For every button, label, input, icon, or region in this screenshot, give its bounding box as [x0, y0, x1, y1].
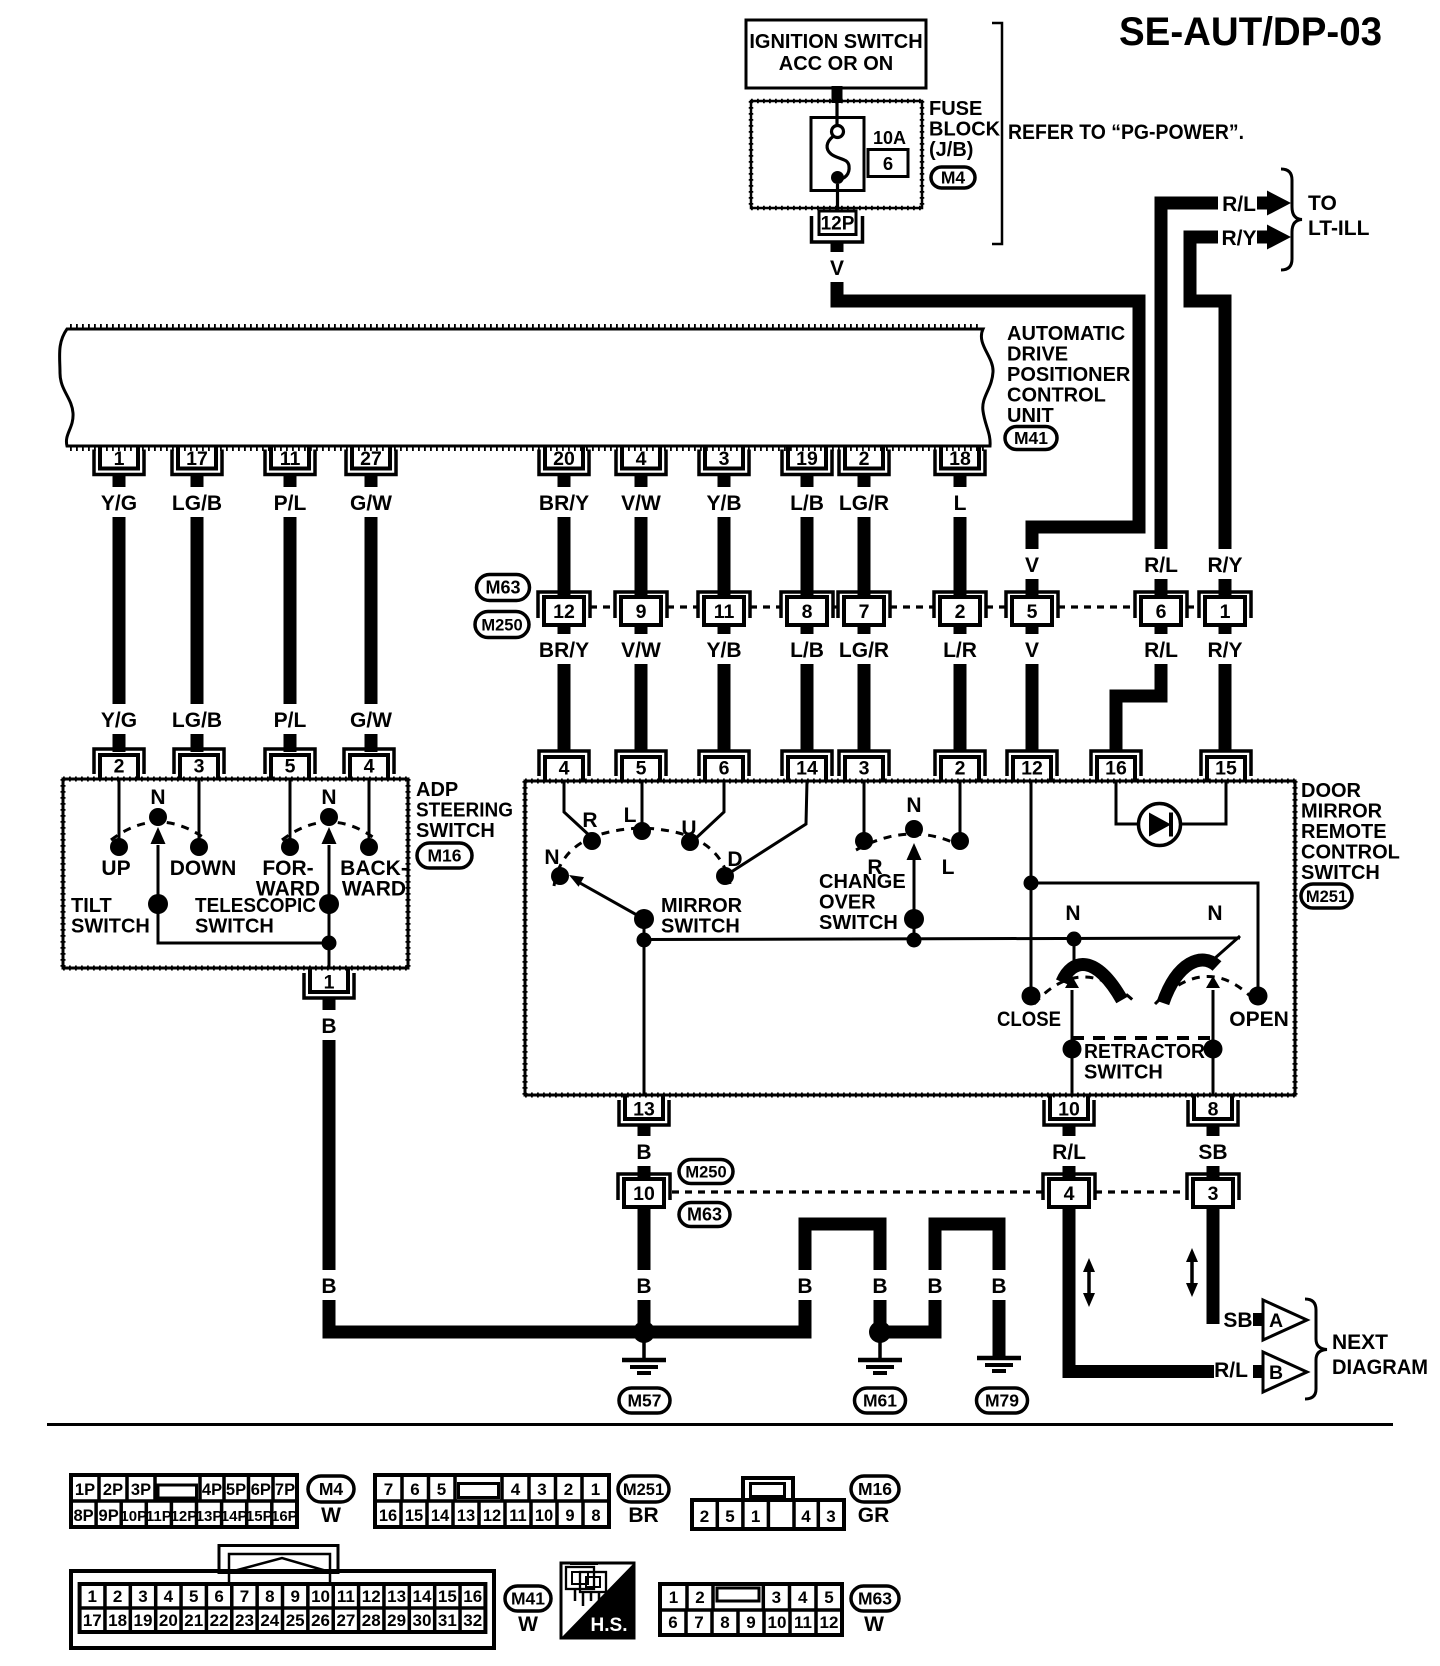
control unit pin 3 [699, 450, 749, 475]
door mirror switch pin 3 [839, 751, 889, 776]
wire label G/W lower [350, 704, 393, 734]
svg-text:REFER TO “PG-POWER”.: REFER TO “PG-POWER”. [1008, 121, 1244, 144]
svg-text:L: L [954, 492, 967, 515]
wire pin 5 to L contact [641, 781, 644, 830]
wire label B left [319, 1270, 339, 1300]
svg-text:LG/R: LG/R [839, 492, 889, 515]
wire label V [1022, 549, 1042, 579]
arrow R/L to LT-ILL [1257, 197, 1267, 210]
svg-text:6: 6 [668, 1613, 677, 1632]
mirror contact R [583, 832, 601, 850]
svg-text:7: 7 [240, 1587, 249, 1606]
svg-text:10A: 10A [873, 128, 906, 148]
connector ref M251 face [618, 1476, 669, 1502]
svg-text:ADP: ADP [416, 779, 458, 801]
svg-text:30: 30 [413, 1611, 432, 1630]
svg-text:4: 4 [798, 1588, 808, 1607]
retractor right arrow to pin 8 [1206, 976, 1220, 988]
wire Y/B to door mirror switch [718, 622, 731, 752]
svg-text:3: 3 [719, 448, 730, 470]
svg-text:12P: 12P [171, 1508, 198, 1525]
svg-text:15P: 15P [246, 1508, 273, 1525]
wire label LG/B lower [170, 704, 224, 734]
svg-text:N: N [321, 786, 336, 809]
svg-text:18: 18 [949, 448, 971, 470]
svg-text:DOWN: DOWN [170, 857, 237, 880]
svg-text:21: 21 [184, 1611, 203, 1630]
door mirror switch pin 15 [1201, 751, 1251, 776]
automatic drive positioner control unit box M41 [60, 329, 993, 446]
wire label B g2 [870, 1270, 890, 1300]
svg-text:(J/B): (J/B) [929, 139, 973, 161]
wire R/L from LT-ILL to connector 6 [1161, 203, 1218, 597]
wire label V/W [620, 634, 663, 664]
svg-text:3: 3 [826, 1507, 835, 1526]
control unit pin 20 [539, 450, 589, 475]
junction telescopic common [322, 936, 337, 951]
svg-text:V: V [830, 257, 844, 280]
svg-text:V/W: V/W [621, 639, 661, 662]
svg-text:16: 16 [1105, 758, 1127, 780]
svg-text:12: 12 [483, 1507, 501, 1525]
svg-text:R/Y: R/Y [1207, 554, 1242, 577]
tilt switch DOWN contact wire [198, 779, 201, 840]
wire SB connector 3 to next diagram A [1207, 1207, 1220, 1324]
svg-text:2: 2 [955, 601, 966, 623]
svg-text:3: 3 [772, 1588, 781, 1607]
svg-text:SWITCH: SWITCH [819, 912, 898, 934]
wire B from ADP pin 1 to ground junction [329, 997, 644, 1332]
wire label R/L pin10 [1048, 1136, 1091, 1166]
brace TO LT-ILL [1281, 169, 1302, 270]
svg-text:15: 15 [405, 1507, 423, 1525]
wire L from pin 18 [954, 473, 967, 597]
connector M63/M250 pin 7 [838, 592, 890, 618]
svg-text:DIAGRAM: DIAGRAM [1332, 1356, 1428, 1379]
wire V/W from pin 4 [635, 473, 648, 597]
connector ref M63 face [851, 1586, 899, 1611]
wire into fuse [835, 101, 838, 126]
svg-text:5: 5 [636, 758, 647, 780]
svg-text:CONTROL: CONTROL [1301, 842, 1400, 864]
contact FORWARD [281, 838, 299, 856]
svg-text:TILT: TILT [71, 895, 112, 917]
svg-text:1: 1 [1220, 601, 1231, 623]
retractor left N contact [1067, 932, 1082, 947]
svg-text:W: W [518, 1613, 538, 1636]
svg-text:ACC OR ON: ACC OR ON [779, 53, 893, 75]
ADP steering switch box M16 [63, 779, 408, 968]
svg-text:22: 22 [210, 1611, 229, 1630]
svg-text:24: 24 [260, 1611, 279, 1630]
wire mirror pivot to pin 13 [643, 919, 646, 1095]
wire pin 6 to U contact [694, 781, 724, 840]
svg-text:28: 28 [362, 1611, 381, 1630]
junction V branch [1024, 876, 1039, 891]
connector ref M251 [1301, 884, 1352, 908]
wire Y/G from pin 1 [113, 473, 126, 752]
connector ref M4 face [308, 1476, 354, 1502]
wire L/B from pin 19 [801, 473, 814, 597]
wire V branch to OPEN contact [1031, 883, 1258, 996]
wire label R/L lower [1140, 634, 1183, 664]
svg-text:R/L: R/L [1144, 639, 1178, 662]
svg-text:B: B [321, 1015, 336, 1038]
wire V conn5 to pin 12 [1026, 622, 1039, 752]
tilt switch arm arrow [157, 845, 160, 904]
svg-text:A: A [1269, 1310, 1283, 1332]
door mirror switch pin 5 [616, 751, 666, 776]
svg-text:RETRACTOR: RETRACTOR [1084, 1041, 1206, 1063]
svg-text:CLOSE: CLOSE [997, 1008, 1061, 1031]
svg-text:Y/G: Y/G [101, 709, 137, 732]
ADP pin 4 [344, 749, 394, 774]
wire label L/R [939, 634, 982, 664]
svg-text:R/L: R/L [1052, 1141, 1086, 1164]
svg-text:TO: TO [1308, 192, 1337, 215]
changeover contact L [951, 832, 969, 850]
telescopic N contact [320, 808, 338, 826]
wire label V lower [1022, 634, 1042, 664]
svg-text:8P: 8P [73, 1507, 93, 1525]
svg-text:OVER: OVER [819, 892, 876, 914]
svg-text:3: 3 [1208, 1183, 1219, 1205]
svg-text:B: B [872, 1275, 887, 1298]
svg-text:11: 11 [714, 601, 735, 623]
wire BR/Y to door mirror switch [558, 622, 571, 752]
ground M61 [878, 1332, 882, 1359]
changeover contact N [905, 820, 923, 838]
svg-text:R/L: R/L [1214, 1359, 1248, 1382]
wire label BR/Y [537, 634, 591, 664]
telescopic switch arm arrow [328, 845, 331, 904]
H.S. hot at all times mark [561, 1563, 634, 1638]
wire label R/L [1140, 549, 1183, 579]
svg-text:R/L: R/L [1144, 554, 1178, 577]
changeover contact R [855, 832, 873, 850]
svg-text:6: 6 [719, 758, 730, 780]
wire label L/B [786, 634, 829, 664]
bracket refer to PG-POWER [992, 23, 1002, 244]
svg-text:D: D [727, 848, 742, 871]
svg-text:7: 7 [859, 601, 870, 623]
wire label BR/Y [537, 487, 591, 517]
svg-text:10: 10 [311, 1587, 330, 1606]
svg-text:2: 2 [113, 1587, 122, 1606]
svg-text:12: 12 [553, 601, 575, 623]
svg-text:13: 13 [387, 1587, 406, 1606]
svg-text:B: B [1269, 1362, 1283, 1384]
svg-text:5P: 5P [226, 1481, 246, 1499]
svg-text:4: 4 [164, 1587, 174, 1606]
wire V/W to door mirror switch [635, 622, 648, 752]
svg-text:7P: 7P [275, 1481, 295, 1499]
connector M63/M250 pin 9 [615, 592, 667, 618]
svg-text:M41: M41 [1014, 428, 1048, 448]
svg-text:B: B [991, 1275, 1006, 1298]
tilt pivot [148, 894, 168, 914]
arrow R/Y to LT-ILL [1257, 231, 1267, 244]
wire LG/R to door mirror switch [858, 622, 871, 752]
retractor dashed link [1072, 1036, 1213, 1040]
svg-text:16: 16 [463, 1587, 482, 1606]
svg-text:4: 4 [511, 1480, 521, 1499]
mirror contact N [551, 867, 569, 885]
control unit pin 11 [265, 450, 315, 475]
wire label L [950, 487, 970, 517]
svg-text:11: 11 [280, 448, 301, 470]
svg-text:6: 6 [410, 1480, 419, 1499]
arrow B to next diagram [1253, 1365, 1263, 1378]
wire V from 12P to connector 5 [837, 242, 1139, 597]
svg-text:CHANGE: CHANGE [819, 871, 906, 893]
connector M63/M250 pin 5 [1006, 592, 1058, 618]
svg-text:7: 7 [384, 1480, 393, 1499]
wire label SB pin8 [1198, 1136, 1229, 1166]
svg-text:1: 1 [114, 448, 125, 470]
svg-text:M250: M250 [685, 1164, 726, 1182]
svg-text:1: 1 [751, 1507, 760, 1526]
svg-text:15: 15 [1215, 758, 1237, 780]
svg-text:LG/B: LG/B [172, 709, 222, 732]
control unit pin 27 [346, 450, 396, 475]
junction mirror common [637, 933, 652, 948]
svg-text:5: 5 [824, 1588, 833, 1607]
svg-text:SWITCH: SWITCH [416, 820, 495, 842]
control unit pin 17 [172, 450, 222, 475]
door mirror remote control switch box M251 [525, 781, 1295, 1095]
svg-text:LT-ILL: LT-ILL [1308, 217, 1370, 240]
wire label B g3 [925, 1270, 945, 1300]
svg-text:SE-AUT/DP-03: SE-AUT/DP-03 [1119, 10, 1382, 54]
retractor OPEN contact [1249, 987, 1268, 1006]
svg-text:MIRROR: MIRROR [661, 895, 743, 917]
svg-text:3: 3 [138, 1587, 147, 1606]
telescopic FORWARD contact wire [289, 779, 292, 840]
dashed connector link [833, 605, 838, 608]
svg-text:BR/Y: BR/Y [539, 492, 589, 515]
wire label R/Y lower [1204, 634, 1247, 664]
dashed connector link [750, 605, 781, 608]
mirror contact L [633, 822, 651, 840]
svg-text:LG/R: LG/R [839, 639, 889, 662]
ADP pin 1 [304, 973, 354, 998]
svg-text:6: 6 [214, 1587, 223, 1606]
connector M250/M63 pin 10 [618, 1174, 670, 1200]
wire B connector 10 to ground [638, 1208, 651, 1332]
wire R/Y from LT-ILL to connector 1 [1190, 237, 1225, 597]
door mirror switch pin 6 [699, 751, 749, 776]
double arrow R/L [1087, 1266, 1091, 1299]
svg-text:8: 8 [591, 1507, 600, 1525]
control unit pin 1 [94, 450, 144, 475]
svg-text:17: 17 [83, 1611, 102, 1630]
svg-text:10P: 10P [120, 1508, 147, 1525]
wire pin 2 to L contact [959, 781, 962, 833]
wire label Y/B [703, 487, 746, 517]
separator line [47, 1423, 1393, 1426]
svg-text:P/L: P/L [274, 709, 307, 732]
svg-text:2: 2 [114, 756, 125, 778]
svg-text:3: 3 [194, 756, 205, 778]
svg-text:29: 29 [387, 1611, 406, 1630]
svg-text:Y/B: Y/B [706, 639, 741, 662]
svg-text:FUSE: FUSE [929, 98, 982, 120]
svg-text:11P: 11P [146, 1508, 172, 1525]
svg-text:DRIVE: DRIVE [1007, 344, 1068, 366]
wire tilt pivot to common [158, 904, 329, 943]
svg-text:V: V [1025, 554, 1039, 577]
ground M79 [997, 1330, 1001, 1357]
wire fuse to 12P [836, 184, 839, 213]
svg-text:26: 26 [311, 1611, 330, 1630]
svg-text:1: 1 [591, 1480, 600, 1499]
svg-text:5: 5 [437, 1480, 446, 1499]
connector M63/M250 pin 8 [781, 592, 833, 618]
wire label V at 12P [827, 252, 847, 282]
svg-text:1: 1 [324, 972, 335, 994]
svg-text:5: 5 [285, 756, 296, 778]
wire label LG/R [837, 487, 891, 517]
wire pin 14 to D contact [728, 781, 807, 874]
wire pin 4 to R contact [564, 781, 590, 836]
connector ref M63 [477, 575, 530, 601]
svg-text:4: 4 [636, 448, 647, 470]
wire label B g4 [989, 1270, 1009, 1300]
retractor left dashed travel arc [1034, 977, 1137, 1004]
svg-text:4P: 4P [202, 1481, 222, 1499]
wire label B pin13 [634, 1136, 654, 1166]
svg-text:8: 8 [1208, 1099, 1219, 1121]
wire label P/L [269, 487, 312, 517]
dashed connector link lower right [1095, 1190, 1187, 1193]
svg-text:8: 8 [265, 1587, 274, 1606]
svg-text:14: 14 [431, 1507, 450, 1525]
telescopic pivot [319, 894, 339, 914]
svg-text:V: V [1025, 639, 1039, 662]
door mirror switch pin 8 [1188, 1100, 1238, 1125]
svg-text:15: 15 [438, 1587, 457, 1606]
fuse 10A [811, 118, 864, 191]
svg-text:SWITCH: SWITCH [71, 916, 150, 938]
svg-text:13: 13 [457, 1507, 475, 1525]
svg-text:2: 2 [695, 1588, 704, 1607]
dashed connector link [1187, 605, 1199, 608]
connector 12P [812, 216, 863, 242]
wire label V/W [620, 487, 663, 517]
svg-text:R: R [582, 809, 597, 832]
svg-text:U: U [681, 817, 696, 840]
svg-text:12: 12 [362, 1587, 381, 1606]
svg-text:W: W [321, 1504, 341, 1527]
door mirror switch pin 10 [1044, 1100, 1094, 1125]
svg-text:9P: 9P [99, 1507, 119, 1525]
double arrow SB [1190, 1256, 1194, 1289]
svg-text:M251: M251 [623, 1481, 664, 1499]
connector M63/M250 pin 2 [934, 592, 986, 618]
svg-text:9: 9 [565, 1507, 574, 1525]
tilt N contact [149, 808, 167, 826]
mirror switch arm [580, 883, 644, 919]
svg-text:3: 3 [537, 1480, 546, 1499]
control unit pin 19 [782, 450, 832, 475]
svg-text:20: 20 [553, 448, 575, 470]
svg-text:2: 2 [564, 1480, 573, 1499]
svg-text:12P: 12P [821, 214, 855, 235]
contact UP [110, 838, 128, 856]
svg-text:4: 4 [801, 1507, 811, 1526]
svg-text:SWITCH: SWITCH [1301, 862, 1380, 884]
svg-text:M4: M4 [319, 1479, 344, 1499]
svg-text:G/W: G/W [350, 492, 392, 515]
svg-text:1: 1 [669, 1588, 678, 1607]
wire V pin 12 to CLOSE contact [1030, 781, 1033, 996]
svg-text:13: 13 [633, 1099, 655, 1121]
wire B pin 13 to connector 10 [638, 1124, 651, 1178]
connector face M251 [375, 1475, 609, 1527]
retractor left arrow to pin 10 [1065, 976, 1079, 988]
svg-text:UNIT: UNIT [1007, 405, 1054, 427]
connector M250/M63 pin 4 [1043, 1174, 1095, 1200]
svg-text:9: 9 [746, 1613, 755, 1632]
door mirror switch pin 14 [782, 751, 832, 776]
retractor left arm [1062, 964, 1122, 1000]
svg-text:Y/G: Y/G [101, 492, 137, 515]
connector face M41 [71, 1571, 494, 1648]
svg-text:3: 3 [859, 758, 870, 780]
svg-text:POSITIONER: POSITIONER [1007, 364, 1131, 386]
svg-text:19: 19 [134, 1611, 153, 1630]
svg-text:WARD: WARD [342, 878, 406, 901]
fuse block J/B box [751, 101, 922, 208]
mirror switch dashed travel arc [554, 828, 730, 886]
tilt switch dashed travel arc [111, 822, 207, 840]
svg-text:L/R: L/R [943, 639, 977, 662]
retractor link dot left [1063, 1040, 1082, 1059]
svg-text:M41: M41 [511, 1589, 545, 1609]
door mirror switch pin 2 [935, 751, 985, 776]
connector M63/M250 pin 1 [1199, 592, 1251, 618]
wire R/L connector 4 to next diagram B [1069, 1207, 1214, 1372]
tilt switch UP contact wire [118, 779, 121, 840]
wire label Y/G [98, 487, 141, 517]
ADP pin 2 [94, 749, 144, 774]
svg-text:NEXT: NEXT [1332, 1331, 1388, 1354]
wire ignition to fuse block [832, 86, 843, 103]
ground M57 [642, 1332, 646, 1359]
wire SB pin 8 to connector 3 [1207, 1124, 1220, 1179]
wire L/B to door mirror switch [801, 622, 814, 752]
svg-text:25: 25 [286, 1611, 305, 1630]
svg-text:14P: 14P [221, 1508, 248, 1525]
wire label Y/B [703, 634, 746, 664]
ADP pin 5 [265, 749, 315, 774]
contact BACKWARD [360, 838, 378, 856]
svg-text:27: 27 [336, 1611, 355, 1630]
wire diode to pin 15 [1180, 781, 1226, 824]
svg-text:1: 1 [88, 1587, 97, 1606]
svg-text:23: 23 [235, 1611, 254, 1630]
wire label R/Y [1204, 549, 1247, 579]
dashed connector link [986, 605, 1006, 608]
svg-text:B: B [927, 1275, 942, 1298]
svg-text:L/B: L/B [790, 639, 824, 662]
door mirror switch pin 16 [1091, 751, 1141, 776]
svg-text:B: B [321, 1275, 336, 1298]
svg-text:N: N [1065, 902, 1080, 925]
retractor left N stub [1073, 939, 1076, 966]
svg-text:2P: 2P [103, 1481, 123, 1499]
